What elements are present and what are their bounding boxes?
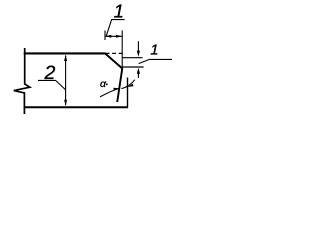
angle arc left with arrowhead at steep line [100, 89, 119, 97]
wire: right extension line of top dimension [121, 30, 123, 68]
wire: right dim lower boundary line [122, 66, 143, 68]
wire: left vertical edge with break zigzag [14, 48, 30, 114]
leader of label 1 (right) [139, 59, 172, 63]
wire: steep tilted edge (angle alpha side) [117, 68, 122, 102]
dimension line 1 (top) [105, 35, 122, 37]
wire: right vertical reference line [127, 78, 129, 108]
wire: left extension line of top dimension [104, 30, 106, 40]
angle arc right with arrowhead at vertical line [121, 80, 134, 89]
svg-text:1: 1 [150, 42, 158, 59]
wire: dashed original surface line [106, 52, 123, 54]
leader of label 1 (top) [106, 20, 124, 36]
dimension line 2 (thickness) [65, 56, 67, 106]
dimension arrows 1 (right) [137, 41, 139, 51]
wire: chamfer bevel edge [105, 53, 123, 69]
wire: bottom line [24, 106, 128, 108]
wire: top surface line [24, 52, 106, 54]
svg-text:1: 1 [114, 1, 124, 22]
leader of label 2 [38, 80, 65, 89]
wire: right dim upper boundary line [122, 57, 142, 59]
svg-text:2: 2 [44, 62, 56, 84]
